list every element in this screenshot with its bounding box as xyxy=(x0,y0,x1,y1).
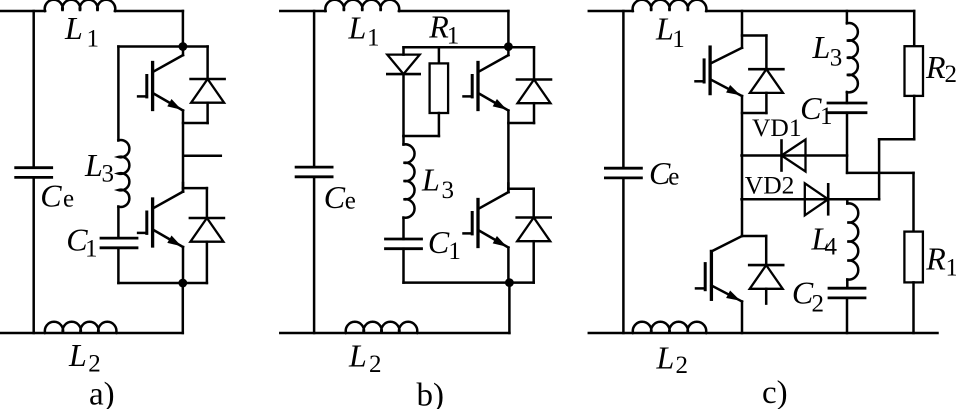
svg-text:VD2: VD2 xyxy=(745,170,795,199)
svg-text:1: 1 xyxy=(85,236,98,263)
svg-text:L: L xyxy=(348,338,367,374)
svg-text:a): a) xyxy=(89,377,115,409)
svg-text:L: L xyxy=(84,147,103,183)
svg-text:1: 1 xyxy=(946,255,956,282)
svg-text:2: 2 xyxy=(88,351,101,378)
svg-text:1: 1 xyxy=(820,103,833,130)
svg-text:2: 2 xyxy=(812,291,825,318)
svg-text:1: 1 xyxy=(672,26,685,53)
svg-text:4: 4 xyxy=(825,234,838,261)
svg-text:3: 3 xyxy=(442,177,455,204)
svg-text:1: 1 xyxy=(448,238,461,265)
svg-text:C: C xyxy=(428,224,450,260)
svg-text:2: 2 xyxy=(945,61,956,88)
svg-text:L: L xyxy=(348,10,367,46)
svg-text:2: 2 xyxy=(676,352,689,379)
svg-text:1: 1 xyxy=(87,26,100,53)
svg-text:VD1: VD1 xyxy=(752,113,802,142)
svg-text:e: e xyxy=(668,164,679,191)
svg-text:L: L xyxy=(812,29,831,65)
svg-text:1: 1 xyxy=(447,23,460,50)
svg-text:L: L xyxy=(656,340,675,376)
svg-text:c): c) xyxy=(762,375,788,409)
svg-text:b): b) xyxy=(417,378,445,409)
svg-text:R: R xyxy=(925,49,946,85)
svg-text:e: e xyxy=(63,186,74,213)
svg-text:e: e xyxy=(345,188,356,215)
svg-text:L: L xyxy=(655,11,674,47)
svg-text:1: 1 xyxy=(367,25,380,52)
svg-text:C: C xyxy=(40,178,62,214)
svg-text:L: L xyxy=(421,162,440,198)
svg-text:C: C xyxy=(324,179,346,215)
svg-text:L: L xyxy=(68,337,87,373)
svg-text:R: R xyxy=(925,240,946,276)
svg-text:3: 3 xyxy=(102,161,115,188)
svg-text:2: 2 xyxy=(369,351,382,378)
svg-text:3: 3 xyxy=(830,45,843,72)
svg-text:C: C xyxy=(800,90,822,126)
svg-text:L: L xyxy=(64,10,83,46)
